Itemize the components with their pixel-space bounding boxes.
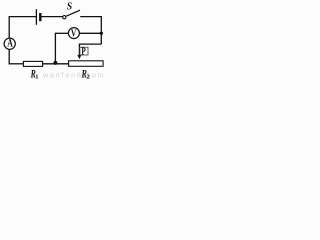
wire xyxy=(8,49,10,64)
svg-text:2: 2 xyxy=(87,73,90,80)
battery xyxy=(36,9,40,25)
svg-text:P: P xyxy=(81,46,86,58)
junction xyxy=(100,32,103,35)
svg-text:S: S xyxy=(67,1,72,13)
wire xyxy=(41,16,62,18)
wire xyxy=(79,43,101,45)
svg-text:V: V xyxy=(71,27,77,39)
wire xyxy=(8,16,10,38)
svg-text:1: 1 xyxy=(35,73,38,80)
wire xyxy=(80,32,102,34)
wire xyxy=(9,63,23,65)
switch S xyxy=(63,10,80,19)
wire xyxy=(9,16,36,18)
voltmeter V1 xyxy=(68,27,79,39)
resistor R1 xyxy=(23,61,42,66)
rheostat R2 xyxy=(69,61,104,67)
slider P xyxy=(77,44,81,60)
junction xyxy=(53,61,57,65)
wire xyxy=(55,32,68,34)
label P xyxy=(80,46,88,58)
wire xyxy=(80,16,101,18)
svg-text:wanfen8.com: wanfen8.com xyxy=(42,73,106,80)
wire xyxy=(100,16,102,44)
ammeter A1 xyxy=(4,38,15,50)
wire xyxy=(54,33,56,64)
wire xyxy=(43,63,69,65)
svg-text:A: A xyxy=(7,38,13,50)
